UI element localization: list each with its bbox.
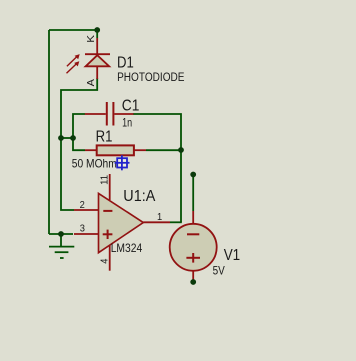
svg-text:C1: C1 [122, 98, 140, 115]
wire left vertical [48, 30, 50, 234]
photodiode D1 [67, 38, 111, 79]
capacitor C1 [85, 102, 134, 126]
wire pin3 horizontal [49, 233, 73, 235]
wire node to pin2 [61, 138, 74, 210]
svg-text:V1: V1 [224, 247, 241, 264]
wire output [170, 221, 182, 223]
junction dot feedback [178, 147, 184, 153]
svg-text:PHOTODIODE: PHOTODIODE [117, 72, 185, 84]
junction dot top [94, 27, 100, 33]
ground [49, 234, 74, 258]
svg-text:D1: D1 [117, 55, 134, 72]
wire anode to node [61, 78, 97, 138]
junction dot ground [58, 231, 64, 237]
wire node jumper [61, 137, 73, 139]
wire C1 right to output corner [133, 114, 181, 222]
svg-text:4: 4 [99, 258, 111, 263]
junction dot V1 bottom [190, 279, 196, 285]
battery V1 [170, 211, 217, 282]
op-amp U1 [74, 174, 170, 271]
junction dot V1 top [190, 172, 196, 178]
svg-text:50 MOhm: 50 MOhm [72, 157, 117, 171]
svg-text:3: 3 [80, 223, 85, 235]
svg-text:1n: 1n [122, 118, 132, 130]
svg-text:K: K [85, 35, 97, 43]
wire node to C1 [73, 114, 85, 138]
svg-text:A: A [85, 79, 97, 86]
svg-text:R1: R1 [96, 128, 113, 145]
svg-text:11: 11 [99, 175, 111, 185]
wire node to R1 [73, 138, 85, 150]
resistor R1 [85, 145, 146, 155]
wire V1 top [192, 175, 194, 212]
wire top horizontal [49, 29, 97, 31]
svg-text:2: 2 [80, 199, 85, 211]
wire cathode stub [96, 30, 98, 38]
svg-text:LM324: LM324 [111, 243, 143, 255]
svg-text:U1:A: U1:A [123, 188, 155, 205]
marker origin icon [115, 155, 130, 170]
svg-text:1: 1 [157, 211, 162, 223]
svg-text:5V: 5V [213, 266, 225, 278]
junction dot node2 [70, 135, 76, 141]
wire R1 right [146, 149, 181, 151]
junction dot node1 [58, 135, 64, 141]
